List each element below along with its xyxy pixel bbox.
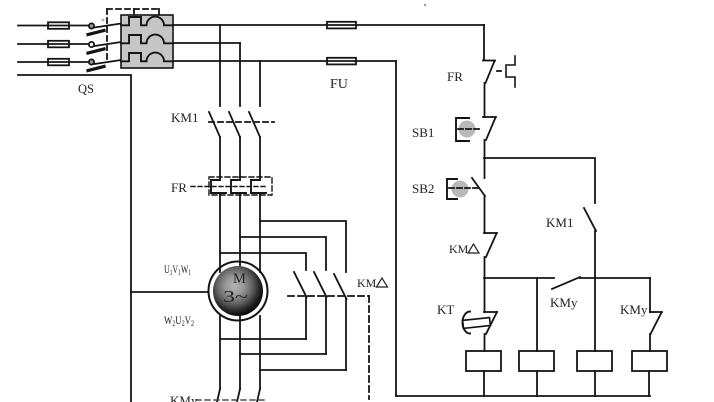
svg-text:SB2: SB2: [412, 181, 434, 196]
switch QS pole 2 blade: [95, 42, 122, 46]
control rail top drop: [483, 25, 485, 60]
svg-text:FR: FR: [447, 69, 463, 84]
linkage stub 1: [133, 9, 135, 15]
wire KMy NC to coil KM-delta: [649, 334, 651, 351]
switch QS pole 3 hinge: [89, 59, 94, 64]
wire lower branch right: [580, 277, 650, 279]
switch QS pole 1 blade: [95, 24, 122, 28]
wire L3 to control left rail: [395, 61, 397, 396]
button SB1 bracket: [456, 118, 469, 141]
noise dot 2: [102, 19, 105, 22]
wire SB2 to KM-delta NC: [484, 196, 486, 233]
wire lower branch left: [484, 277, 554, 279]
svg-text:KT: KT: [437, 302, 454, 317]
contactor KM1 linkage (dashed): [209, 121, 274, 123]
svg-text:M: M: [233, 271, 246, 287]
relay FR NC contact blade: [486, 61, 495, 83]
fuse FU3 (L3 incoming): [48, 59, 69, 66]
wire U2 motor bottom: [239, 316, 241, 389]
contactor KM1 main pole 2 blade: [229, 112, 240, 137]
breaker element row 1: [121, 17, 173, 26]
wire phase A drop: [219, 25, 221, 106]
wire V2 to KM-delta pole3 bottom: [260, 369, 346, 371]
KMy star linkage (dashed, cut): [196, 399, 264, 401]
coil KM-delta: [632, 351, 667, 371]
wire L2 supply lead: [18, 43, 89, 45]
motor M ball: [213, 266, 263, 316]
relay FR heater 2: [231, 177, 246, 195]
contactor KM-delta pole 3 lower lead: [345, 299, 347, 370]
svg-text:KMy: KMy: [550, 295, 578, 310]
wire coil KM-delta to rail: [648, 371, 650, 396]
wire V2 motor bottom: [259, 316, 261, 389]
breaker box body: [121, 15, 173, 68]
switch QS linkage (dashed): [106, 9, 108, 63]
relay FR NC contact bar: [483, 60, 495, 62]
wire W1 motor feed: [259, 195, 261, 272]
wire coil KM1 to rail: [594, 371, 596, 396]
wire phase B drop: [239, 43, 241, 106]
contact KM-delta NC blade: [486, 234, 497, 258]
switch QS pole 3 knife: [88, 67, 104, 71]
coil KMy: [519, 351, 554, 371]
svg-text:SB1: SB1: [412, 125, 434, 140]
svg-text:W2U2V2: W2U2V2: [164, 313, 194, 328]
switch QS pole 2 knife: [88, 49, 104, 53]
switch QS pole 1 knife: [88, 31, 104, 35]
fuse FU2 (L2 incoming): [48, 41, 69, 48]
contactor KM-delta pole 2 lower lead: [325, 297, 327, 354]
wire rail under QS: [18, 75, 131, 402]
button SB1 blade: [486, 118, 496, 141]
triangle of KM-delta NC: [468, 244, 479, 253]
wire U1 to KM-delta pole1 top: [220, 253, 306, 270]
contact KMy NC blade: [651, 313, 662, 335]
button SB1 link (dashed): [458, 128, 482, 130]
relay FR hook link (dashed): [497, 70, 504, 72]
svg-text:FR: FR: [171, 180, 187, 195]
button SB2 cap: [452, 181, 469, 198]
contact KT tick: [484, 311, 497, 313]
contactor KMy star pole 3 blade (cut): [257, 389, 260, 402]
svg-text:KM1: KM1: [171, 110, 198, 125]
contact KMy NC (horizontal) blade: [552, 277, 580, 289]
svg-text:FU: FU: [330, 77, 348, 92]
relay FR heater box (dashed): [209, 177, 272, 195]
wire U2 to KM-delta pole2 bottom: [240, 353, 326, 355]
fuse FU top (control): [327, 22, 356, 29]
contactor KM-delta pole 2 blade: [314, 272, 327, 297]
svg-text:KM1: KM1: [546, 215, 573, 230]
motor M outer ring: [209, 262, 268, 321]
wire FR to SB1: [484, 83, 486, 117]
breaker element row 3: [121, 53, 173, 62]
KT delay arc: [463, 312, 470, 334]
wire KM1 aux to coil KM1: [594, 231, 596, 351]
breaker element row 2: [121, 35, 173, 44]
wire W2 motor bottom: [219, 316, 221, 389]
coil KT: [466, 351, 501, 371]
wire pole1 to FR: [219, 137, 221, 177]
contact KM-delta NC bar: [484, 232, 497, 234]
wire W1 to KM-delta pole3 top: [260, 221, 346, 272]
KM-delta linkage horizontal (dashed): [288, 295, 369, 297]
wire coil KT to rail: [483, 371, 485, 396]
svg-text:KM: KM: [357, 276, 377, 290]
button SB1 cap: [459, 121, 476, 138]
wire L2 bus: [173, 42, 240, 44]
svg-text:QS: QS: [78, 82, 94, 96]
wire self-hold branch: [484, 158, 595, 203]
contact KM1 aux blade: [584, 208, 596, 231]
button SB1 contact bar: [483, 116, 496, 118]
contactor KM1 main pole 1 blade: [209, 112, 220, 137]
switch QS pole 1 hinge: [89, 23, 94, 28]
wire W2 to KM-delta pole1 bottom: [220, 338, 306, 340]
svg-text:3~: 3~: [223, 287, 248, 306]
contactor KMy star pole 2 blade (cut): [237, 389, 240, 402]
svg-text:KMy: KMy: [620, 302, 648, 317]
noise dot 1: [424, 4, 426, 6]
KM-delta linkage vertical (dashed): [368, 296, 370, 399]
wire coil KMy to rail: [536, 371, 538, 396]
contactor KM1 main pole 3 blade: [249, 112, 260, 137]
wire L3 bus: [173, 60, 396, 62]
wire SB1 to SB2: [484, 140, 486, 178]
wire pole2 to FR: [239, 137, 241, 177]
FR label link (dashed): [191, 186, 268, 188]
control bottom rail: [396, 395, 650, 397]
wire L1 bus: [173, 24, 484, 26]
svg-text:U1V1W1: U1V1W1: [164, 262, 191, 277]
button SB2 bracket: [447, 179, 457, 199]
contactor KM-delta pole 3 blade: [334, 274, 347, 299]
svg-text:KM: KM: [449, 242, 469, 256]
contactor KMy star pole 1 blade (cut): [217, 389, 220, 402]
wire KT to coil: [484, 334, 486, 351]
coil KM1: [577, 351, 612, 371]
wire drop to coil KMy: [536, 278, 538, 351]
button SB2 blade: [472, 178, 485, 196]
contactor KM-delta pole 1 lower lead: [305, 297, 307, 339]
relay FR release hook: [506, 56, 515, 87]
wire motor frame lead: [131, 291, 209, 293]
wire phase C drop: [259, 61, 261, 106]
button SB2 link (dashed): [449, 187, 478, 189]
wire V1 motor feed: [239, 195, 241, 272]
switch QS pole 2 hinge: [89, 42, 94, 47]
contact KT blade: [486, 312, 497, 334]
wire L3 supply lead: [18, 61, 89, 63]
wire V1 to KM-delta pole2 top: [240, 237, 326, 270]
linkage to breaker (dashed): [107, 8, 159, 10]
fuse FU bottom (control): [327, 58, 356, 65]
wire right branch drop: [649, 278, 651, 312]
wire U1 motor feed: [219, 195, 221, 272]
KT delay shoe: [463, 318, 491, 329]
wire pole3 to FR: [259, 137, 261, 177]
wire L1 supply lead: [18, 25, 89, 27]
svg-text:KMy: KMy: [170, 393, 198, 402]
relay FR heater 1: [211, 177, 226, 195]
contact KMy NC tick: [650, 311, 662, 313]
triangle of KM-delta main: [377, 278, 388, 287]
contactor KM-delta pole 1 blade: [294, 272, 307, 297]
fuse FU1 (L1 incoming): [48, 22, 69, 29]
linkage stub 2: [158, 9, 160, 15]
relay FR heater 3: [251, 177, 266, 195]
wire KM-delta NC to KT: [484, 257, 486, 312]
switch QS pole 3 blade: [95, 60, 122, 64]
